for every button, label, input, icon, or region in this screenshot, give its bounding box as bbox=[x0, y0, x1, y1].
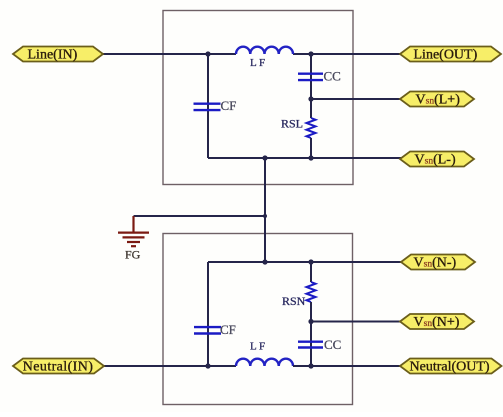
wire Neutral(IN) to inductor bbox=[103, 365, 236, 367]
wire CF top stem bbox=[207, 54, 209, 158]
svg-text:Neutral(IN): Neutral(IN) bbox=[23, 360, 93, 375]
capacitor CC (bottom) bbox=[298, 342, 323, 348]
wire RSL top stem bbox=[310, 99, 312, 118]
svg-text:CC: CC bbox=[324, 337, 341, 352]
junction node (265,262) bbox=[262, 259, 267, 264]
wire node A to inductor LF left bbox=[208, 53, 236, 55]
svg-text:Vsn(N-): Vsn(N-) bbox=[414, 256, 457, 271]
junction node FG tee (265,216) bbox=[263, 214, 267, 218]
junction node B (311,54) bbox=[308, 51, 313, 56]
wire inductor to Neutral(OUT) bbox=[293, 365, 402, 367]
port Neutral(IN) bbox=[13, 359, 104, 375]
capacitor CC (top) bbox=[298, 74, 323, 80]
wire Line(IN) to node A bbox=[101, 53, 208, 55]
wire Vsn(N+) branch bbox=[311, 321, 402, 323]
wire CC bottom-box top stem bbox=[310, 322, 312, 367]
svg-text:Vsn(L-): Vsn(L-) bbox=[415, 153, 456, 168]
sheet symbol box (top filter section) bbox=[163, 11, 353, 185]
svg-text:CF: CF bbox=[221, 98, 237, 113]
junction node Vsn(L-) (311,158) bbox=[308, 155, 313, 160]
junction node (265,158) bbox=[262, 155, 267, 160]
junction node Vsn(L+) (311,99) bbox=[308, 96, 313, 101]
svg-text:L F: L F bbox=[250, 341, 265, 353]
inductor LF (top) bbox=[236, 47, 293, 54]
sheet symbol box (bottom filter section) bbox=[163, 234, 353, 405]
svg-text:RSL: RSL bbox=[281, 117, 303, 131]
wire to ground FG bbox=[134, 215, 266, 217]
svg-text:Vsn(L+): Vsn(L+) bbox=[416, 93, 461, 108]
port Vsn(N-) bbox=[401, 255, 475, 271]
svg-text:Vsn(N+): Vsn(N+) bbox=[414, 315, 460, 330]
wire inductor LF right to node B bbox=[293, 53, 311, 55]
wire CC top stem bbox=[310, 54, 312, 99]
svg-text:CF: CF bbox=[220, 322, 236, 337]
svg-text:L F: L F bbox=[250, 57, 265, 69]
wire top rail of bottom box to Vsn(N-) bbox=[208, 261, 402, 263]
svg-text:FG: FG bbox=[125, 248, 141, 262]
svg-text:CC: CC bbox=[324, 69, 341, 84]
capacitor CF (top) bbox=[194, 104, 221, 110]
port Line(OUT) bbox=[400, 47, 501, 63]
wire RSN top stem bbox=[310, 262, 312, 282]
port Line(IN) bbox=[13, 47, 103, 63]
wire inter-box vertical bbox=[264, 158, 266, 262]
ground FG bbox=[118, 216, 149, 246]
junction node CF-neutral (208,366) bbox=[205, 363, 210, 368]
wire RSL bottom stem bbox=[310, 138, 312, 158]
port Neutral(OUT) bbox=[400, 359, 502, 375]
port Vsn(L+) bbox=[400, 92, 474, 108]
svg-text:RSN: RSN bbox=[282, 294, 306, 308]
wire Vsn(L+) branch bbox=[311, 98, 402, 100]
svg-text:Line(OUT): Line(OUT) bbox=[414, 48, 478, 63]
port Vsn(N+) bbox=[400, 314, 474, 330]
wire bottom rail of top box to Vsn(L-) bbox=[208, 157, 402, 159]
junction node Vsn(N-) (311,262) bbox=[308, 259, 313, 264]
port Vsn(L-) bbox=[400, 152, 474, 168]
resistor RSN bbox=[307, 282, 316, 302]
wire CF bottom-box top stem bbox=[207, 262, 209, 366]
wire RSN bottom stem bbox=[310, 302, 312, 322]
wire node B to Line(OUT) bbox=[311, 53, 402, 55]
svg-text:Neutral(OUT): Neutral(OUT) bbox=[410, 360, 490, 375]
capacitor CF (bottom) bbox=[194, 327, 221, 333]
junction node CC-neutral (311,366) bbox=[308, 363, 313, 368]
junction node Vsn(N+) (311,321.5) bbox=[308, 319, 313, 324]
junction node A (208,54) bbox=[205, 51, 210, 56]
resistor RSL bbox=[307, 118, 316, 138]
inductor LF (bottom) bbox=[236, 359, 293, 366]
svg-text:Line(IN): Line(IN) bbox=[28, 48, 78, 63]
